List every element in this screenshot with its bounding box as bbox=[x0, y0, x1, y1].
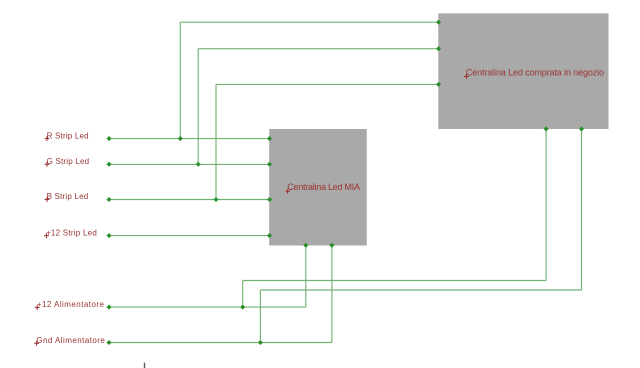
pin U1 +12 bottom bbox=[303, 243, 308, 248]
wire G vertical riser bbox=[197, 49, 199, 165]
node R label terminal bbox=[106, 136, 111, 141]
junction G net bbox=[196, 162, 201, 167]
wire Gnd run to U2 bbox=[260, 289, 581, 291]
node G label terminal bbox=[106, 162, 111, 167]
label Gnd Alimentatore bbox=[34, 336, 105, 346]
pin U1 B (left 3) bbox=[267, 197, 272, 202]
node +12 Alimentatore terminal bbox=[106, 305, 111, 310]
wire +12 Strip Led to U1 pin bbox=[109, 235, 269, 237]
wire B-label to U1 pin bbox=[109, 199, 269, 201]
node +12 Strip Led terminal bbox=[106, 233, 111, 238]
svg-text:+12 Alimentatore: +12 Alimentatore bbox=[37, 300, 105, 309]
wire +12 branch riser bbox=[242, 281, 244, 308]
wire Gnd horizontal bbox=[109, 342, 332, 344]
pin U2 R (left 1) bbox=[436, 20, 441, 25]
wire B top run to U2 bbox=[216, 83, 438, 85]
wire G-label to U1 pin bbox=[109, 163, 269, 165]
svg-text:Centralina Led comprata in neg: Centralina Led comprata in negozio bbox=[466, 67, 604, 77]
svg-text:Centralina Led MIA: Centralina Led MIA bbox=[287, 182, 360, 192]
junction +12 Alimentatore net bbox=[240, 305, 245, 310]
pin U1 G (left 2) bbox=[267, 162, 272, 167]
controller U1 "Centralina Led MIA" (body) bbox=[269, 129, 367, 246]
node B label terminal bbox=[106, 197, 111, 202]
wire +12 riser to U1 bottom pin bbox=[305, 246, 307, 308]
node Gnd Alimentatore terminal bbox=[106, 340, 111, 345]
junction Gnd net bbox=[258, 340, 263, 345]
wire Gnd riser to U1 bottom pin bbox=[331, 246, 333, 343]
label G Strip Led bbox=[45, 157, 90, 167]
label +12 Alimentatore bbox=[35, 300, 105, 310]
label R Strip Led bbox=[45, 131, 89, 141]
svg-text:Gnd Alimentatore: Gnd Alimentatore bbox=[36, 336, 105, 345]
label U2 value "Centralina Led comprata in negozio" bbox=[464, 67, 604, 79]
svg-text:+12 Strip Led: +12 Strip Led bbox=[46, 228, 97, 237]
controller U2 "Centralina Led comprata in negozio" (body) bbox=[438, 13, 608, 129]
pin U2 G (left 2) bbox=[436, 46, 441, 51]
svg-text:G Strip Led: G Strip Led bbox=[47, 157, 90, 166]
svg-text:R Strip Led: R Strip Led bbox=[47, 131, 89, 140]
pin U1 R (left 1) bbox=[267, 136, 272, 141]
pin U2 Gnd bottom bbox=[579, 126, 584, 131]
wire +12 riser to U2 bottom pin bbox=[545, 129, 547, 281]
wire +12 Alimentatore horizontal bbox=[109, 306, 306, 308]
pin U2 +12 bottom bbox=[544, 126, 549, 131]
wire B vertical riser bbox=[215, 84, 217, 199]
wire +12 run to U2 bbox=[243, 280, 546, 282]
wire R vertical riser bbox=[179, 22, 181, 138]
label B Strip Led bbox=[45, 192, 89, 202]
wire G top run to U2 bbox=[198, 48, 438, 50]
label U1 value "Centralina Led MIA" bbox=[285, 182, 360, 194]
pin U1 Gnd bottom bbox=[329, 243, 334, 248]
svg-text:B Strip Led: B Strip Led bbox=[47, 192, 89, 201]
text cursor artifact bbox=[144, 363, 145, 368]
pin U2 B (left 3) bbox=[436, 82, 441, 87]
wire Gnd riser to U2 bottom pin bbox=[581, 129, 583, 290]
pin U1 +12 (left 4) bbox=[267, 233, 272, 238]
label +12 Strip Led bbox=[44, 228, 97, 238]
junction R net bbox=[178, 136, 183, 141]
junction B net bbox=[213, 197, 218, 202]
wire R-label to U1 pin bbox=[109, 138, 269, 140]
wire Gnd branch riser bbox=[259, 290, 261, 343]
wire R top run to U2 bbox=[180, 21, 438, 23]
